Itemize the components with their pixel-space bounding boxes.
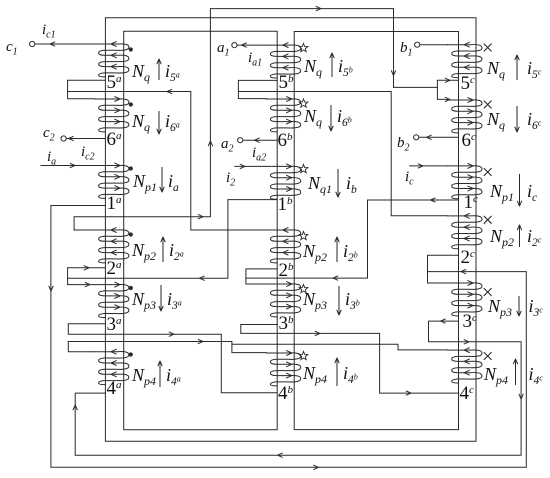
wire 1c bottom to 2b/3b tap bbox=[246, 200, 459, 278]
winding 2a (Np2) bbox=[94, 230, 128, 263]
terminal a2 bbox=[238, 138, 243, 143]
terminal b2 bbox=[414, 135, 419, 140]
polarity dot 5a bbox=[129, 47, 133, 51]
winding 5c (Nq) bbox=[448, 45, 483, 78]
wire 5b/6b tap to 2c top bbox=[238, 92, 447, 216]
stub to 4a top bbox=[68, 342, 94, 352]
terminal a1 bbox=[232, 43, 237, 48]
polarity cross 4c bbox=[484, 352, 492, 360]
wire 3a bottom to 4b bottom bbox=[68, 324, 277, 393]
stub 2a-3a series link bbox=[68, 268, 106, 285]
polarity dot 4a bbox=[129, 352, 133, 356]
winding 2b (Np2) bbox=[266, 230, 301, 263]
wire 4a top to 4b top bbox=[68, 342, 266, 353]
polarity star 3b bbox=[299, 284, 308, 292]
winding 4a (Np4) bbox=[94, 352, 128, 385]
polarity star 5b bbox=[299, 43, 308, 51]
winding 6c (Nq) bbox=[448, 100, 483, 133]
wire 5a/6a tap to 2b top bbox=[68, 92, 267, 231]
terminal c2 bbox=[61, 136, 66, 141]
polarity star 1b bbox=[299, 164, 308, 172]
wire 1b bottom to 2a/3a tap bbox=[68, 200, 278, 279]
wire 2a top to 5c/6c tap bbox=[74, 9, 437, 230]
polarity cross 5c bbox=[484, 44, 492, 52]
stub 5b-6b series link bbox=[238, 80, 277, 98]
winding 1b (Nq1) bbox=[266, 166, 301, 199]
polarity dot 2a bbox=[129, 232, 133, 236]
winding 4b (Np4) bbox=[266, 353, 301, 386]
terminal b1 bbox=[415, 42, 420, 47]
polarity cross 2c bbox=[484, 216, 492, 224]
polarity star 2b bbox=[299, 231, 308, 239]
wire b2 to 6c bottom bbox=[419, 136, 459, 138]
wire a2 to 6b bottom bbox=[243, 139, 277, 141]
wire branch to 4c top bbox=[232, 344, 448, 350]
wire ring: col-b right vertical / leg-c bbox=[294, 32, 458, 430]
wire ia into 1a bbox=[41, 165, 94, 167]
winding 2c (Np2) bbox=[448, 216, 483, 249]
winding 3c (Np3) bbox=[448, 283, 483, 316]
polarity dot 6a bbox=[129, 102, 133, 106]
wire stub to 2a top bbox=[74, 229, 94, 231]
polarity star 4b bbox=[299, 351, 308, 359]
wire ring: leg-a / top / col-c right vertical / bottom bbox=[105, 18, 476, 442]
stub 5a-6a series link bbox=[68, 80, 106, 99]
winding 3b (Np3) bbox=[266, 284, 301, 317]
wire a1 to 5b bbox=[237, 44, 266, 46]
winding 5b (Nq) bbox=[266, 45, 301, 78]
wire ring: col-a right vertical / leg-b bbox=[124, 31, 278, 430]
winding 3a (Np3) bbox=[94, 284, 128, 317]
winding 6b (Nq) bbox=[266, 99, 301, 132]
wire b1 to 5c bbox=[420, 44, 448, 46]
polarity dot 3a bbox=[129, 286, 133, 290]
winding 1c (Np1) bbox=[448, 166, 483, 199]
polarity cross 3c bbox=[484, 288, 492, 296]
wire ic into 1c bbox=[410, 165, 448, 167]
stub 5c-6c series link bbox=[437, 80, 458, 99]
polarity star 6b bbox=[299, 99, 308, 107]
polarity dot 1a bbox=[129, 166, 133, 170]
winding 5a (Nq) bbox=[94, 44, 128, 77]
wire i2 into 1b bbox=[235, 165, 266, 167]
wire 1a bottom to 2c/3c tap bbox=[51, 206, 526, 468]
wire c1 to 5a bbox=[35, 43, 94, 45]
polarity cross 6c bbox=[484, 101, 492, 109]
stub 2b-3b series link bbox=[246, 269, 277, 284]
winding 6a (Nq) bbox=[94, 99, 128, 132]
wire 3c bottom to 4a bottom bbox=[75, 321, 521, 455]
stub 2c-3c series link bbox=[428, 255, 459, 283]
winding 4c (Np4) bbox=[448, 350, 483, 383]
wire c2 to 6a bottom bbox=[67, 138, 106, 140]
polarity cross 1c bbox=[484, 168, 492, 176]
wire 3b bottom to 4c bottom bbox=[241, 325, 459, 394]
terminal c1 bbox=[30, 41, 35, 46]
winding 1a (Np1) bbox=[94, 165, 128, 198]
